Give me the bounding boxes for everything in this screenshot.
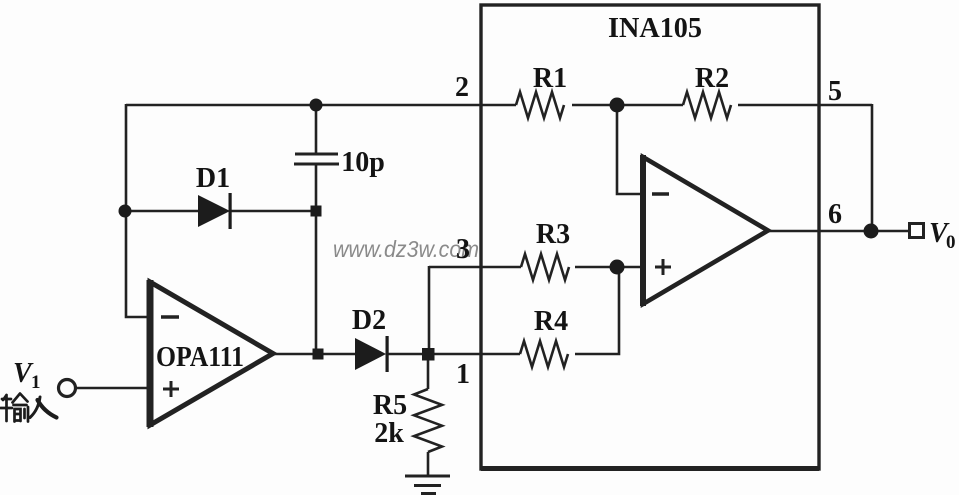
svg-text:OPA111: OPA111 [156, 342, 244, 373]
output terminal square [910, 224, 924, 238]
wire left feedback vertical [126, 104, 150, 317]
svg-text:D2: D2 [352, 305, 386, 336]
minus sign U2 [652, 192, 669, 195]
junction node pin6 [864, 224, 879, 239]
wire pin3 lead to R3 [429, 266, 521, 269]
op-amp OPA111 [150, 282, 273, 425]
resistor R3 [521, 254, 569, 280]
junction node at cap top [310, 99, 323, 112]
junction node D1 anode [119, 205, 132, 218]
char ru [30, 397, 40, 418]
wire D1 cathode lead [231, 210, 316, 213]
svg-text:2: 2 [455, 72, 469, 103]
junction node plus input [610, 260, 625, 275]
wire R3 to plus junction [575, 266, 617, 269]
wire plus junction to op-amp [617, 266, 643, 269]
wire cap bottom lead down to output node [315, 164, 318, 354]
svg-text:5: 5 [828, 76, 842, 107]
input terminal circle [59, 380, 76, 397]
svg-text:10p: 10p [341, 147, 385, 178]
wire R2 out to corner [738, 104, 872, 107]
svg-text:R2: R2 [695, 63, 729, 94]
label Chinese shuru (input) drawn as strokes [1, 394, 57, 422]
wire R5 to ground [427, 452, 430, 476]
IC box INA105 [481, 5, 819, 469]
plus sign OPA111 [163, 381, 179, 397]
svg-text:1: 1 [456, 359, 470, 390]
wire node1 down to R5 [427, 354, 430, 389]
wire pin3 vertical [428, 266, 431, 354]
svg-text:R3: R3 [536, 219, 570, 250]
junction node R1-R2 [610, 98, 625, 113]
resistor R1 [516, 92, 564, 118]
junction node 1 [422, 348, 435, 361]
svg-text:R4: R4 [534, 306, 568, 337]
char shu [1, 395, 13, 421]
svg-text:R5: R5 [373, 390, 407, 421]
wire junction down to minus input [617, 105, 643, 194]
plus sign U2 [655, 259, 671, 275]
wire D1 anode lead [125, 210, 198, 213]
junction node D1 cathode [311, 206, 322, 217]
wire top rail pin2 to R1 [126, 104, 516, 107]
diode D1 [198, 195, 230, 227]
svg-text:D1: D1 [196, 163, 230, 194]
wire cap top lead [315, 104, 318, 154]
wire R4 up to plus junction [575, 267, 619, 354]
svg-text:3: 3 [456, 234, 470, 265]
wire OPA111 output to D2 [272, 353, 355, 356]
wire output pin6 to terminal [768, 230, 909, 233]
svg-text:INA105: INA105 [608, 13, 702, 44]
wire V1 input lead [76, 387, 150, 390]
ground [405, 476, 450, 494]
wire D2 cathode to node 1 [387, 353, 428, 356]
wire vertical pin5 drop [871, 104, 874, 231]
resistor R4 [520, 341, 568, 367]
wire R1 to junction to R2 [572, 104, 683, 107]
capacitor C 10p plates [294, 154, 339, 164]
svg-text:R1: R1 [533, 63, 567, 94]
wire pin1 lead to R4 [428, 353, 520, 356]
svg-text:0: 0 [946, 232, 956, 253]
resistor R2 [683, 92, 731, 118]
minus sign OPA111 [161, 315, 179, 318]
diode D2 [355, 338, 386, 370]
op-amp U2 (inside INA105) [643, 157, 768, 304]
junction node OPA111 output [313, 349, 324, 360]
resistor R5 [414, 389, 442, 452]
svg-text:6: 6 [828, 199, 842, 230]
svg-text:1: 1 [31, 372, 41, 393]
svg-text:2k: 2k [374, 418, 404, 449]
